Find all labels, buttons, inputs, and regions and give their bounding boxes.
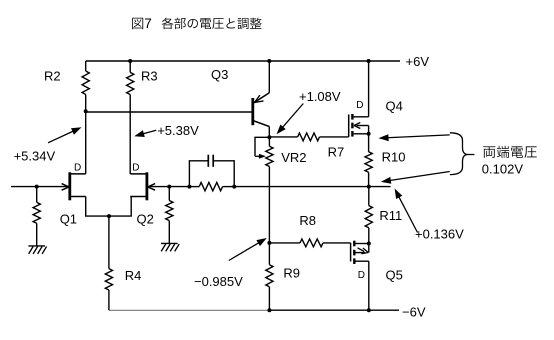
node input / gate resistor xyxy=(35,185,39,189)
node feedback left xyxy=(187,185,191,189)
resistor feedback (unlabeled) xyxy=(189,182,234,190)
resistor R11 xyxy=(365,187,402,244)
resistor R2 xyxy=(44,61,89,112)
transistor Q3 xyxy=(211,61,269,137)
resistor R10 xyxy=(365,134,405,187)
node feedback right xyxy=(232,185,236,189)
resistor Q2 gate bias (unlabeled) xyxy=(166,187,173,244)
transistor Q5 (MOSFET) xyxy=(351,241,403,311)
node Q4 source xyxy=(367,132,371,136)
svg-text:−0.985V: −0.985V xyxy=(194,274,243,289)
label +1.08V with arrow xyxy=(277,89,341,134)
transistor Q2 (FET) xyxy=(130,163,155,227)
wire feedback to output node xyxy=(234,186,369,188)
svg-text:Q1: Q1 xyxy=(60,212,77,227)
svg-text:Q5: Q5 xyxy=(386,267,403,282)
ground (Q2 gate resistor) xyxy=(161,243,179,251)
svg-text:+0.136V: +0.136V xyxy=(415,226,464,241)
svg-text:−6V: −6V xyxy=(402,304,426,319)
svg-text:+5.38V: +5.38V xyxy=(157,123,199,138)
node R3 top xyxy=(128,59,132,63)
svg-text:R4: R4 xyxy=(125,268,142,283)
wire Q2 gate xyxy=(148,186,189,188)
resistor input bias (unlabeled) xyxy=(33,186,40,246)
svg-text:D: D xyxy=(132,163,139,174)
wire VR2 bottom through feedback crossing to R8/R9 node xyxy=(268,166,270,243)
node Q5 drain at -6V rail xyxy=(367,308,371,312)
svg-text:+6V: +6V xyxy=(406,54,430,69)
node R9 bottom at -6V rail xyxy=(267,308,271,312)
label +0.136V with arrow xyxy=(395,189,465,242)
svg-text:R3: R3 xyxy=(141,69,158,84)
node output (R10/R11 junction) xyxy=(367,185,371,189)
resistor R4 xyxy=(105,216,141,310)
label +5.38V with arrow xyxy=(134,123,199,138)
wire input xyxy=(11,186,68,188)
svg-text:Q3: Q3 xyxy=(211,67,228,82)
wire R2 node to Q3 base xyxy=(86,111,252,113)
resistor R9 xyxy=(266,243,300,310)
svg-text:0.102V: 0.102V xyxy=(482,161,524,176)
svg-text:D: D xyxy=(74,163,81,174)
wire R2 bottom to Q1 drain xyxy=(85,112,87,174)
node tail (sources junction) xyxy=(107,214,111,218)
svg-text:Q4: Q4 xyxy=(386,98,403,113)
resistor R7 xyxy=(269,133,348,160)
node R8/R9/VR2 junction xyxy=(267,241,271,245)
title 図7 各部の電圧と調整 xyxy=(132,16,261,31)
wire Q1/Q2 sources to tail xyxy=(86,197,132,217)
transistor Q4 (MOSFET) xyxy=(349,61,403,137)
node Q4 drain at +6V rail xyxy=(367,59,371,63)
-6V power rail xyxy=(109,304,426,319)
svg-text:R11: R11 xyxy=(379,208,402,223)
node Q3 collector / VR2 top xyxy=(267,135,271,139)
svg-text:R10: R10 xyxy=(382,149,406,164)
transistor Q1 (FET) xyxy=(60,163,86,227)
label +5.34V with arrow xyxy=(14,127,82,163)
+6V power rail xyxy=(86,54,430,69)
svg-text:VR2: VR2 xyxy=(281,150,306,165)
wire R3 bottom to Q2 drain (crosses base wire) xyxy=(129,95,131,174)
svg-text:7: 7 xyxy=(144,16,152,31)
svg-text:+1.08V: +1.08V xyxy=(299,89,341,104)
svg-text:D: D xyxy=(356,100,363,111)
svg-text:R2: R2 xyxy=(44,69,61,84)
node R2 bottom xyxy=(84,109,88,113)
ground (input resistor) xyxy=(28,246,46,254)
trimmer VR2 xyxy=(255,137,306,166)
node Q3 emitter at +6V rail xyxy=(267,59,271,63)
node Q5 source / R11 bottom xyxy=(367,242,371,246)
svg-text:+5.34V: +5.34V xyxy=(14,149,56,164)
capacitor feedback (unlabeled) xyxy=(189,155,234,187)
node Q2 gate resistor xyxy=(167,185,171,189)
resistor R8 xyxy=(269,213,350,247)
svg-text:Q2: Q2 xyxy=(137,212,154,227)
svg-text:D: D xyxy=(358,270,365,281)
svg-text:R8: R8 xyxy=(299,213,316,228)
resistor R3 xyxy=(127,61,158,95)
brace and arrows for 両端電圧 0.102V xyxy=(379,133,537,184)
label -0.985V with arrow xyxy=(194,238,267,289)
svg-text:R9: R9 xyxy=(283,265,300,280)
svg-text:R7: R7 xyxy=(328,145,345,160)
wire output stub xyxy=(369,186,391,188)
